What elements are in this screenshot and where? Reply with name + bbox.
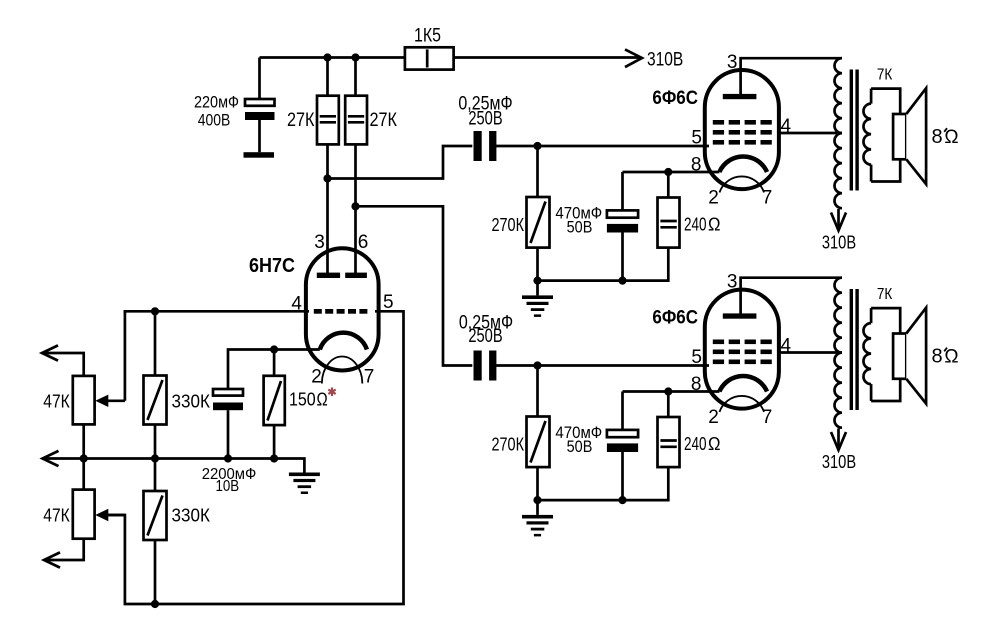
capacitor 470mF 50V channel 1 bbox=[555, 204, 638, 281]
wire top rail to 310V arrow bbox=[454, 56, 641, 59]
wire cathode pin8 channel 2 bbox=[623, 390, 720, 393]
svg-text:8: 8 bbox=[931, 346, 942, 368]
transformer primary winding channel 2 bbox=[835, 278, 843, 428]
arrow 310V top right bbox=[625, 49, 642, 67]
pot 47K lower bottom lead and output arrow bbox=[44, 539, 84, 560]
node dot pot column on bus bbox=[80, 454, 88, 462]
svg-text:310В: 310В bbox=[822, 232, 856, 253]
red asterisk marker bbox=[328, 388, 335, 397]
label 8 Ohm channel 1 bbox=[931, 126, 958, 148]
svg-text:330К: 330К bbox=[172, 392, 211, 412]
svg-text:50В: 50В bbox=[567, 437, 593, 456]
capacitor 470mF 50V channel 2 bbox=[555, 423, 638, 500]
pin 4 lead channel 2 bbox=[779, 351, 842, 354]
svg-text:2: 2 bbox=[311, 367, 322, 388]
node dot 330K bottom on bottom wire bbox=[151, 600, 159, 608]
node junction dot top rail at 27K left bbox=[323, 53, 331, 61]
node dot plate1 tap bbox=[323, 174, 331, 182]
svg-text:Ω: Ω bbox=[317, 390, 328, 410]
resistor 240R channel 1 bbox=[658, 198, 721, 248]
cathode arc channel 1 bbox=[719, 156, 767, 172]
svg-text:27К: 27К bbox=[370, 110, 398, 131]
arrow 310V down channel 1 bbox=[837, 209, 840, 229]
node dot 2200mF bottom on bus bbox=[224, 454, 232, 462]
grid rows channel 2 bbox=[713, 340, 772, 365]
svg-text:330К: 330К bbox=[172, 506, 211, 526]
svg-text:Ω: Ω bbox=[708, 434, 721, 454]
wire cathode bottom rail channel 2 bbox=[538, 467, 669, 500]
node junction dot top rail at 27K right bbox=[351, 53, 359, 61]
grid rows channel 1 bbox=[713, 120, 772, 145]
node dot 330K upper on bus bbox=[151, 454, 159, 462]
ground symbol channel 2 bbox=[536, 500, 539, 515]
grid dash row 6N7S bbox=[314, 309, 368, 314]
svg-text:5: 5 bbox=[691, 128, 702, 149]
pot 47K upper top lead and input arrow bbox=[42, 353, 84, 376]
resistor 330K lower bbox=[144, 459, 211, 605]
node dot cathode at 240R channel 2 bbox=[664, 387, 672, 395]
wire upper cap to 6F6S #1 pin5 bbox=[494, 145, 709, 148]
svg-text:3: 3 bbox=[727, 272, 738, 293]
speaker channel 1 bbox=[893, 88, 926, 184]
node dot 330K top on grid wire bbox=[151, 307, 159, 315]
wire input bus middle bbox=[43, 457, 275, 460]
svg-text:270К: 270К bbox=[492, 215, 525, 235]
svg-text:47К: 47К bbox=[43, 392, 70, 412]
transformer secondary winding channel 1 bbox=[870, 89, 873, 104]
tube 6F6S channel 1 (output pentode) bbox=[705, 70, 779, 189]
svg-text:4: 4 bbox=[291, 294, 302, 315]
node dot grid feed #2 bbox=[533, 361, 541, 369]
secondary leads to speaker channel 1 bbox=[871, 89, 900, 182]
anode bars 6N7S bbox=[317, 273, 367, 278]
svg-text:6: 6 bbox=[358, 232, 369, 253]
resistor 330K upper bbox=[144, 311, 211, 458]
svg-text:47К: 47К bbox=[43, 506, 70, 526]
svg-text:6Ф6С: 6Ф6С bbox=[652, 88, 698, 109]
svg-text:2: 2 bbox=[708, 407, 719, 428]
node dot 470mF bottom channel 2 bbox=[618, 496, 626, 504]
svg-text:5: 5 bbox=[383, 292, 394, 313]
label 8 Ohm channel 2 bbox=[931, 346, 958, 368]
svg-text:310В: 310В bbox=[647, 50, 683, 71]
arrow 310V down channel 2 bbox=[837, 429, 840, 449]
pin 3 lead channel 1 bbox=[741, 58, 842, 96]
node dot 270K bottom channel 2 bbox=[533, 496, 541, 504]
resistor 150R cathode bias bbox=[264, 350, 328, 459]
node dot 470mF bottom channel 1 bbox=[618, 277, 626, 285]
svg-text:7: 7 bbox=[762, 188, 773, 209]
anode plate bar channel 2 bbox=[723, 313, 757, 318]
svg-text:27К: 27К bbox=[287, 110, 315, 131]
anode plate bar channel 1 bbox=[723, 94, 757, 99]
wire 27K right to 6N7S pin6 bbox=[354, 144, 357, 273]
svg-text:7К: 7К bbox=[877, 67, 893, 84]
capacitor 2200mF 10V bbox=[202, 389, 257, 495]
capacitor 0,25mF 250V upper bbox=[458, 94, 512, 162]
svg-text:1К5: 1К5 bbox=[414, 26, 441, 47]
cathode arc 6N7S bbox=[320, 333, 367, 350]
resistor 270K channel 1 bbox=[492, 146, 550, 281]
node dot cathode at 240R channel 1 bbox=[664, 168, 672, 176]
svg-text:8: 8 bbox=[691, 374, 702, 395]
node dot 150R bottom on bus bbox=[270, 454, 278, 462]
capacitor 220mF 400V bbox=[194, 93, 275, 153]
svg-text:7: 7 bbox=[364, 367, 375, 388]
svg-text:4: 4 bbox=[781, 116, 792, 137]
svg-text:8: 8 bbox=[931, 126, 942, 148]
wire top B+ rail left segment bbox=[260, 56, 405, 59]
wire plate2 tap to lower coupling cap bbox=[356, 206, 473, 365]
svg-text:Ω: Ω bbox=[708, 215, 721, 235]
pin 4 lead 6N7S grid1 bbox=[125, 311, 309, 401]
cathode arc channel 2 bbox=[719, 376, 767, 392]
svg-text:270К: 270К bbox=[492, 435, 525, 455]
resistor 27K right bbox=[345, 58, 397, 145]
heater arc 6N7S bbox=[322, 357, 362, 384]
arrow input bus left bbox=[43, 451, 59, 466]
svg-text:400В: 400В bbox=[198, 111, 231, 130]
wire cathode pin8 channel 1 bbox=[623, 171, 720, 174]
transformer core channel 2 bbox=[850, 289, 859, 410]
svg-text:240: 240 bbox=[684, 215, 707, 235]
svg-text:8: 8 bbox=[691, 155, 702, 176]
svg-text:250В: 250В bbox=[468, 109, 502, 130]
transformer core channel 1 bbox=[850, 70, 859, 191]
ground symbol near 150R bbox=[274, 459, 304, 473]
svg-text:7К: 7К bbox=[877, 286, 893, 303]
transformer secondary winding channel 2 bbox=[870, 308, 873, 323]
svg-text:2: 2 bbox=[708, 188, 719, 209]
svg-text:6Н7С: 6Н7С bbox=[249, 255, 295, 277]
wire 27K left to 6N7S pin3 bbox=[326, 144, 329, 273]
potentiometer 47K lower bbox=[43, 490, 94, 539]
capacitor 0,25mF 250V lower bbox=[459, 313, 513, 381]
pot 47K lower wiper arrow bbox=[95, 509, 125, 521]
svg-text:10В: 10В bbox=[215, 478, 239, 495]
node dot grid feed #1 bbox=[533, 142, 541, 150]
pot 47K lower top lead to bus bbox=[82, 459, 85, 490]
resistor 27K left bbox=[287, 58, 339, 145]
wire 6N7S cathode bbox=[228, 350, 320, 390]
svg-text:4: 4 bbox=[781, 336, 792, 357]
svg-text:240: 240 bbox=[684, 434, 707, 454]
pin 4 lead channel 1 bbox=[779, 132, 842, 135]
potentiometer 47K upper bbox=[43, 376, 94, 425]
svg-text:3: 3 bbox=[314, 232, 325, 253]
svg-text:220мФ: 220мФ bbox=[194, 93, 239, 112]
resistor 1K5 bbox=[405, 26, 454, 70]
speaker channel 2 bbox=[893, 308, 926, 404]
pin 5 lead 6N7S grid2 loop bbox=[108, 311, 404, 604]
wire lower cap to 6F6S #2 pin5 bbox=[494, 364, 709, 367]
svg-text:310В: 310В bbox=[822, 451, 856, 472]
wire plate1 tap to upper coupling cap bbox=[328, 146, 473, 179]
chassis bar under 220uF bbox=[244, 152, 275, 158]
tube 6F6S channel 2 (output pentode) bbox=[705, 290, 779, 409]
node dot 270K bottom channel 1 bbox=[533, 277, 541, 285]
svg-text:3: 3 bbox=[727, 52, 738, 73]
pin 3 lead channel 2 bbox=[741, 278, 842, 316]
heater arc channel 1 bbox=[720, 176, 765, 192]
wire cathode bottom rail channel 1 bbox=[538, 248, 669, 281]
svg-text:7: 7 bbox=[762, 407, 773, 428]
pot 47K upper wiper arrow bbox=[95, 395, 125, 407]
pot 47K upper bottom lead to bus bbox=[82, 424, 85, 458]
node dot plate2 tap bbox=[351, 202, 359, 210]
resistor 240R channel 2 bbox=[658, 417, 721, 467]
svg-text:150: 150 bbox=[289, 390, 316, 410]
svg-text:5: 5 bbox=[691, 347, 702, 368]
svg-text:250В: 250В bbox=[468, 326, 502, 347]
tube 6N7S (driver double triode) bbox=[306, 248, 379, 370]
resistor 270K channel 2 bbox=[492, 366, 550, 501]
svg-text:50В: 50В bbox=[567, 218, 593, 237]
heater arc channel 2 bbox=[720, 396, 765, 412]
secondary leads to speaker channel 2 bbox=[871, 308, 900, 401]
svg-text:6Ф6С: 6Ф6С bbox=[652, 308, 698, 329]
transformer primary winding channel 1 bbox=[835, 58, 843, 208]
node dot cathode at 150R bbox=[270, 345, 278, 353]
wire top rail down to 220uF bbox=[258, 58, 261, 100]
ground symbol channel 1 bbox=[536, 281, 539, 296]
